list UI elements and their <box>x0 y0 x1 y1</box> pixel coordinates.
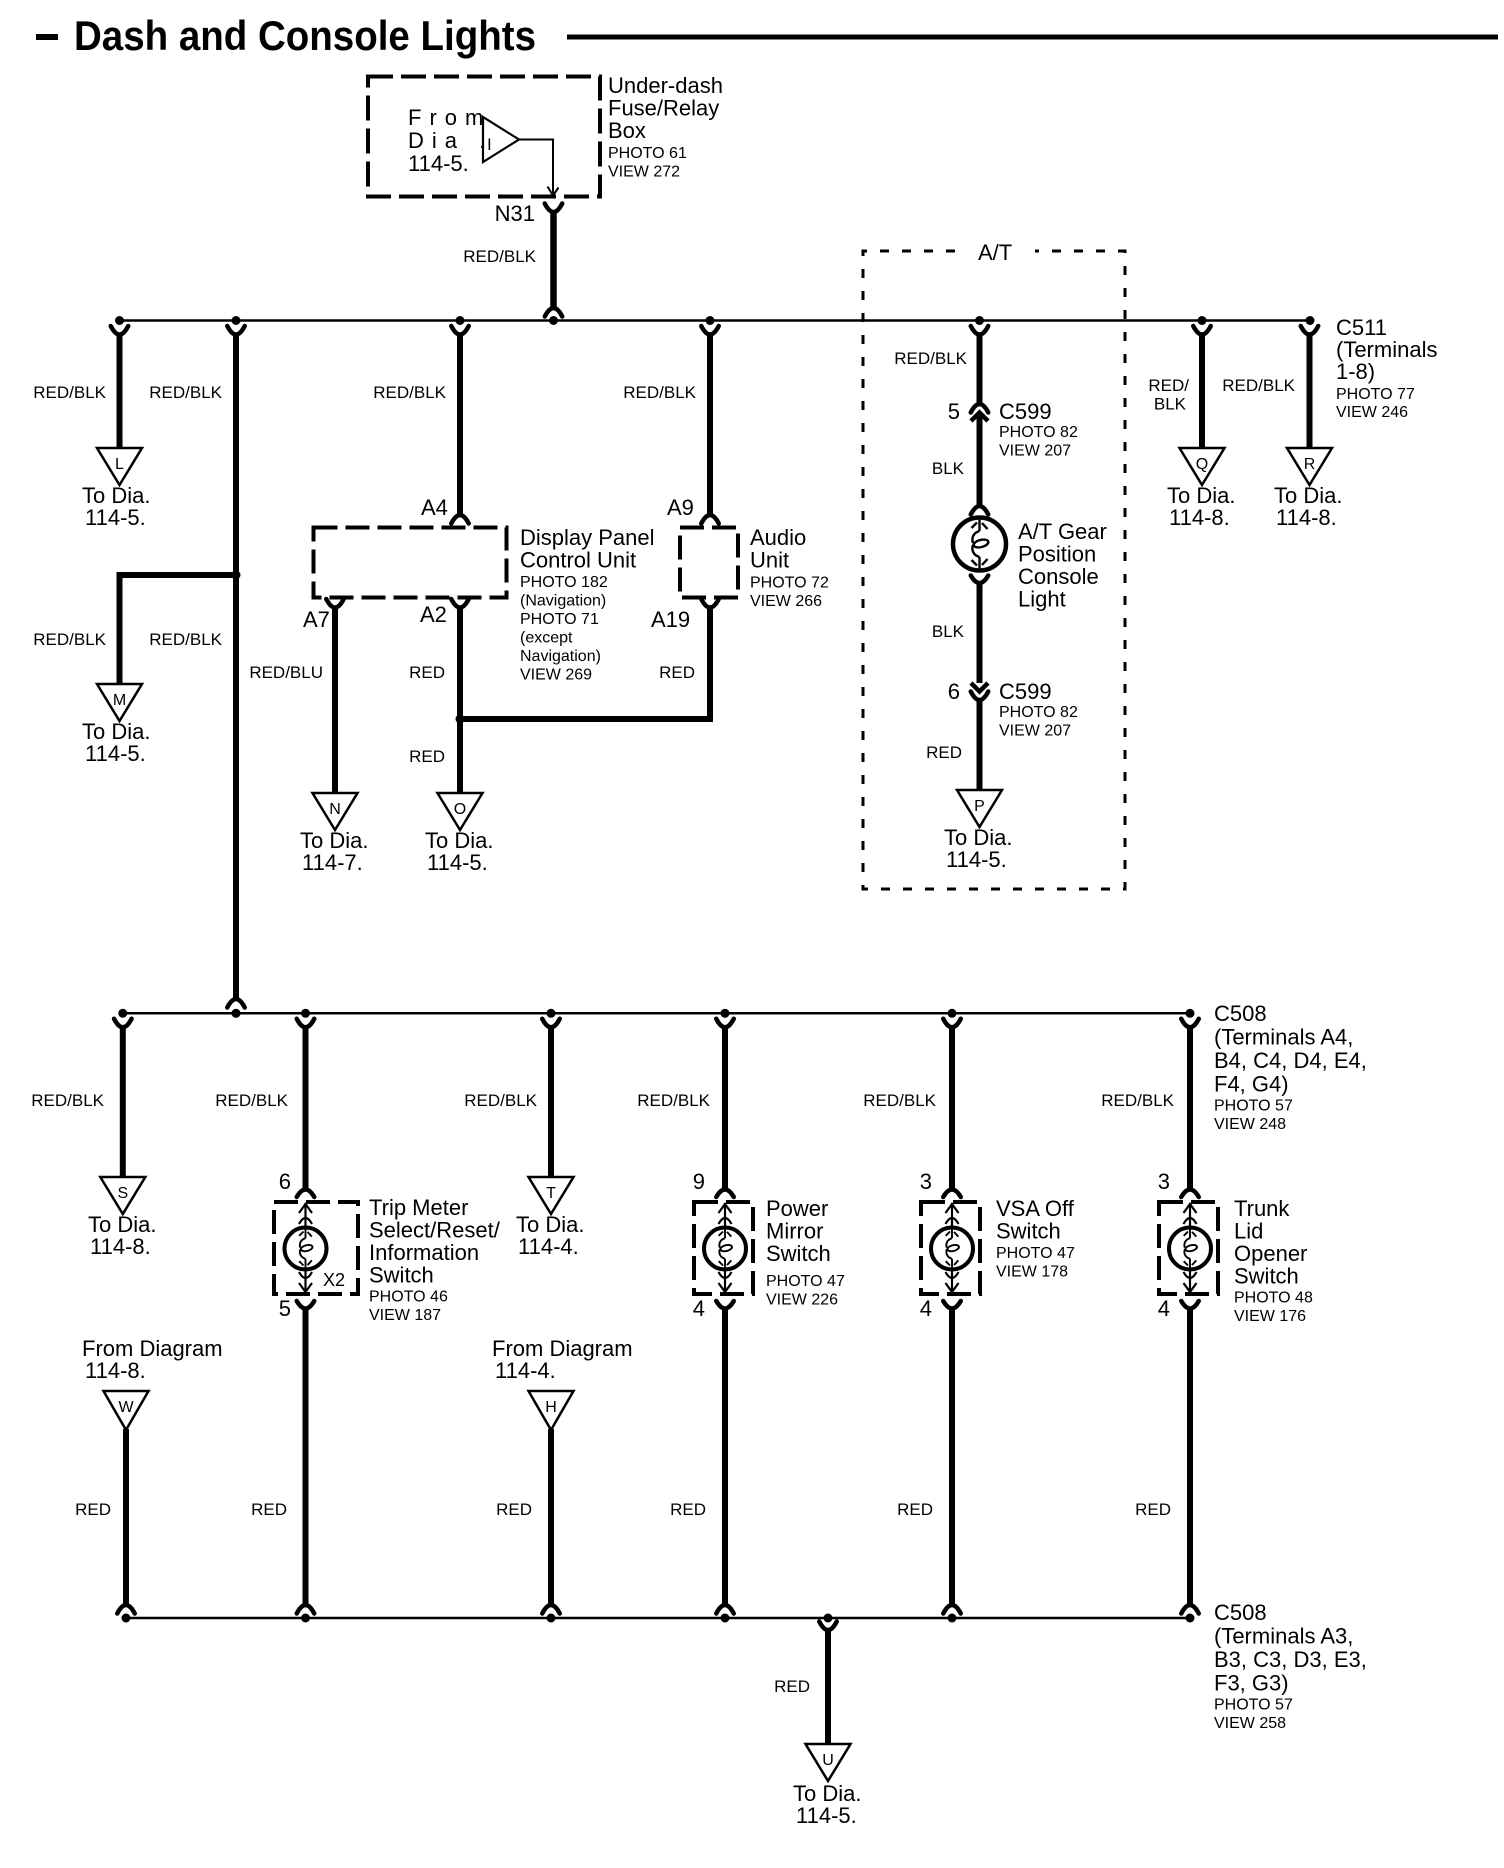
svg-text:PHOTO 72: PHOTO 72 <box>750 575 829 592</box>
svg-text:Switch: Switch <box>369 1263 434 1288</box>
junction dot bus3 x=551 <box>547 1614 556 1623</box>
junction dot bus3 x=1190 <box>1186 1614 1195 1623</box>
svg-text:VIEW 272: VIEW 272 <box>608 164 680 181</box>
svg-text:114-5.: 114-5. <box>796 1803 857 1828</box>
svg-text:B4, C4, D4, E4,: B4, C4, D4, E4, <box>1214 1048 1367 1073</box>
connector triangle N To Dia. 114-7. <box>313 793 358 830</box>
svg-text:RED/BLK: RED/BLK <box>464 1091 537 1110</box>
svg-text:RED/BLK: RED/BLK <box>31 1091 104 1110</box>
svg-text:A19: A19 <box>651 607 690 632</box>
svg-text:RED/BLK: RED/BLK <box>1222 376 1295 395</box>
svg-text:P: P <box>974 798 985 815</box>
branch wire to trunk lid opener switch (RED/BLK) <box>1181 1019 1199 1028</box>
svg-text:Audio: Audio <box>750 525 806 550</box>
connector triangle W (from diagram) <box>104 1391 149 1430</box>
connector triangle H (from diagram) <box>529 1391 574 1430</box>
wire RED from H to bus3 <box>548 1429 554 1604</box>
svg-text:RED/BLK: RED/BLK <box>149 383 222 402</box>
svg-text:C508: C508 <box>1214 1600 1267 1625</box>
svg-text:RED/BLK: RED/BLK <box>637 1091 710 1110</box>
svg-text:L: L <box>115 456 124 473</box>
svg-text:4: 4 <box>693 1296 705 1321</box>
branch wire to VSA off switch (RED/BLK) <box>943 1019 961 1028</box>
svg-text:VIEW 258: VIEW 258 <box>1214 1715 1286 1732</box>
connector triangle P To Dia. 114-5. <box>957 790 1002 827</box>
wire N31 from fuse box to bus (RED/BLK) <box>545 204 563 213</box>
title rule <box>567 35 1498 40</box>
wire RED from trip meter to bus3 <box>297 1301 315 1309</box>
svg-text:5: 5 <box>948 399 960 424</box>
title: Dash and Console Lights heading <box>36 34 58 40</box>
bus line 3 (bottom horizontal) <box>126 1617 1190 1620</box>
power mirror switch box <box>694 1202 753 1294</box>
wire RED from VSA off switch to bus3 <box>943 1301 961 1309</box>
svg-text:Switch: Switch <box>1234 1264 1299 1289</box>
svg-text:B3, C3, D3, E3,: B3, C3, D3, E3, <box>1214 1647 1367 1672</box>
branch wire to display panel A4 <box>451 326 469 335</box>
svg-text:114-5.: 114-5. <box>946 847 1007 872</box>
connector triangle T To Dia. 114-4. <box>529 1177 574 1214</box>
VSA off switch box <box>921 1202 980 1294</box>
svg-text:RED: RED <box>409 747 445 766</box>
svg-text:114-8.: 114-8. <box>1169 505 1230 530</box>
junction dot bus2 x=236 <box>232 1009 241 1018</box>
horizontal jumper wire to M branch <box>120 572 237 578</box>
svg-text:RED/BLK: RED/BLK <box>33 630 106 649</box>
junction dot bus3 x=952 <box>948 1614 957 1623</box>
junction dot A2/A19 tap <box>456 715 465 724</box>
long branch wire from bus1 to bus2 <box>227 326 245 335</box>
svg-text:VIEW 207: VIEW 207 <box>999 723 1071 740</box>
svg-text:RED/BLU: RED/BLU <box>249 663 323 682</box>
svg-text:Information: Information <box>369 1240 479 1265</box>
branch wire to audio unit A9 <box>701 326 719 335</box>
connector triangle R To Dia. 114-8. <box>1287 448 1332 485</box>
svg-text:BLK: BLK <box>932 459 965 478</box>
svg-text:6: 6 <box>948 679 960 704</box>
junction dot bus3 x=305.5 <box>301 1614 310 1623</box>
connector triangle S To Dia. 114-8. <box>100 1177 145 1214</box>
svg-text:3: 3 <box>920 1169 932 1194</box>
svg-text:114-4.: 114-4. <box>518 1234 579 1259</box>
svg-text:N: N <box>329 801 341 818</box>
A/T gear position console light bulb <box>971 506 989 515</box>
junction dot bus2 x=952 <box>948 1009 957 1018</box>
junction dot bus1 x=710 <box>706 316 715 325</box>
junction dot bus1 x=1310 <box>1306 316 1315 325</box>
svg-text:6: 6 <box>279 1169 291 1194</box>
svg-text:RED: RED <box>251 1500 287 1519</box>
svg-text:PHOTO 57: PHOTO 57 <box>1214 1098 1293 1115</box>
connector C599 pin5 (female/male pair) <box>971 404 989 413</box>
svg-text:Opener: Opener <box>1234 1241 1307 1266</box>
wire RED from C599 pin6 to P triangle <box>977 700 983 790</box>
svg-text:Dash and Console Lights: Dash and Console Lights <box>74 12 536 59</box>
svg-text:Box: Box <box>608 118 646 143</box>
svg-text:114-5.: 114-5. <box>408 151 469 176</box>
horizontal jumper wire from A2 wire to A19 wire <box>460 716 710 722</box>
junction dot bus1 x=979.5 <box>975 316 984 325</box>
svg-text:(Terminals A3,: (Terminals A3, <box>1214 1624 1353 1649</box>
wire BLK from bulb to C599 pin6 <box>977 581 983 683</box>
svg-text:Unit: Unit <box>750 548 789 573</box>
svg-text:A2: A2 <box>420 602 447 627</box>
connector triangle O To Dia. 114-5. <box>438 793 483 830</box>
svg-text:RED: RED <box>926 743 962 762</box>
svg-text:BLK: BLK <box>1154 395 1187 414</box>
wire from A19 down to jumper (RED) <box>701 599 719 608</box>
svg-text:RED: RED <box>1135 1500 1171 1519</box>
branch wire T from bus2 (RED/BLK) <box>542 1019 560 1028</box>
svg-text:Trip Meter: Trip Meter <box>369 1195 468 1220</box>
svg-text:4: 4 <box>1158 1296 1170 1321</box>
svg-text:(except: (except <box>520 630 573 647</box>
junction dot bus3 x=725 <box>721 1614 730 1623</box>
connector triangle U To Dia. 114-5. <box>806 1744 851 1781</box>
svg-text:Mirror: Mirror <box>766 1219 823 1244</box>
svg-text:Display Panel: Display Panel <box>520 525 655 550</box>
branch wire to trip meter switch (RED/BLK) <box>297 1019 315 1028</box>
svg-text:VIEW 246: VIEW 246 <box>1336 404 1408 421</box>
svg-text:114-8.: 114-8. <box>85 1358 146 1383</box>
svg-text:A/T Gear: A/T Gear <box>1018 519 1107 544</box>
svg-text:C599: C599 <box>999 679 1052 704</box>
svg-text:(Terminals A4,: (Terminals A4, <box>1214 1025 1353 1050</box>
svg-text:114-5.: 114-5. <box>85 505 146 530</box>
branch wire S from bus2 (RED/BLK) <box>114 1019 132 1028</box>
connector C599 pin6 (male/female pair) <box>971 683 988 692</box>
svg-text:M: M <box>113 692 126 709</box>
svg-text:I: I <box>487 135 492 154</box>
svg-text:RED: RED <box>774 1677 810 1696</box>
junction dot bus1 x=1202 <box>1198 316 1207 325</box>
junction dot bus1 x=553.5 <box>549 316 558 325</box>
wire from A2 down (RED) <box>451 599 469 608</box>
svg-text:RED: RED <box>75 1500 111 1519</box>
svg-text:S: S <box>117 1185 128 1202</box>
junction dot on long wire for M tap <box>232 571 241 580</box>
svg-text:RED: RED <box>670 1500 706 1519</box>
svg-text:3: 3 <box>1158 1169 1170 1194</box>
svg-text:U: U <box>822 1752 834 1769</box>
svg-text:PHOTO 82: PHOTO 82 <box>999 704 1078 721</box>
svg-text:114-8.: 114-8. <box>1276 505 1337 530</box>
under-dash fuse/relay box (dashed) <box>368 77 600 197</box>
svg-text:BLK: BLK <box>932 622 965 641</box>
svg-text:VIEW 269: VIEW 269 <box>520 667 592 684</box>
svg-text:A/T: A/T <box>978 240 1012 265</box>
svg-text:VIEW 266: VIEW 266 <box>750 593 822 610</box>
junction dot bus2 x=122.8 <box>118 1009 127 1018</box>
wire RED from W to bus3 <box>123 1429 129 1604</box>
display panel control unit box (dashed) <box>314 528 507 598</box>
trip meter select/reset/information switch box <box>274 1202 358 1294</box>
svg-text:Under-dash: Under-dash <box>608 73 723 98</box>
branch wire R from bus1 end <box>1301 326 1319 335</box>
svg-text:1-8): 1-8) <box>1336 359 1375 384</box>
svg-text:PHOTO 47: PHOTO 47 <box>996 1245 1075 1262</box>
svg-text:114-8.: 114-8. <box>90 1234 151 1259</box>
svg-text:Trunk: Trunk <box>1234 1196 1290 1221</box>
svg-text:Light: Light <box>1018 587 1066 612</box>
wire RED from trunk lid switch to bus3 <box>1181 1301 1199 1309</box>
svg-text:C599: C599 <box>999 399 1052 424</box>
svg-text:RED: RED <box>897 1500 933 1519</box>
svg-text:H: H <box>545 1399 557 1416</box>
junction dot bus1 x=119.5 <box>115 316 124 325</box>
svg-text:VSA Off: VSA Off <box>996 1196 1075 1221</box>
svg-text:RED/BLK: RED/BLK <box>894 349 967 368</box>
svg-text:PHOTO 82: PHOTO 82 <box>999 424 1078 441</box>
wire BLK from C599 to console light bulb <box>977 416 983 505</box>
svg-text:A4: A4 <box>421 495 448 520</box>
svg-text:4: 4 <box>920 1296 932 1321</box>
svg-text:O: O <box>454 801 466 818</box>
bus line 2 (middle horizontal) <box>123 1012 1190 1015</box>
svg-text:T: T <box>546 1185 556 1202</box>
bus line 1 (top horizontal) <box>120 319 1311 322</box>
svg-text:Console: Console <box>1018 564 1099 589</box>
svg-text:From: From <box>408 105 491 130</box>
buffer triangle symbol inside fuse box <box>483 117 519 162</box>
junction dot bus2 x=725 <box>721 1009 730 1018</box>
svg-text:F4, G4): F4, G4) <box>1214 1072 1289 1097</box>
audio unit box (dashed) <box>680 528 738 598</box>
svg-text:N31: N31 <box>495 201 535 226</box>
svg-text:RED/BLK: RED/BLK <box>33 383 106 402</box>
branch wire L drop from bus1 <box>111 326 129 335</box>
junction dot bus2 x=305.5 <box>301 1009 310 1018</box>
svg-text:RED/BLK: RED/BLK <box>1101 1091 1174 1110</box>
branch wire to power mirror switch (RED/BLK) <box>716 1019 734 1028</box>
svg-text:PHOTO 48: PHOTO 48 <box>1234 1290 1313 1307</box>
svg-text:VIEW 248: VIEW 248 <box>1214 1116 1286 1133</box>
junction dot bus1 x=460 <box>456 316 465 325</box>
svg-text:PHOTO 47: PHOTO 47 <box>766 1273 845 1290</box>
A/T dashed enclosure box <box>863 251 1125 889</box>
svg-text:R: R <box>1304 456 1316 473</box>
branch wire Q from bus1 <box>1193 326 1211 335</box>
svg-text:Navigation): Navigation) <box>520 648 601 665</box>
svg-text:Position: Position <box>1018 542 1096 567</box>
junction dot bus2 x=1190 <box>1186 1009 1195 1018</box>
svg-text:W: W <box>118 1399 134 1416</box>
svg-text:(Navigation): (Navigation) <box>520 593 606 610</box>
svg-text:Switch: Switch <box>766 1241 831 1266</box>
svg-text:114-4.: 114-4. <box>495 1358 556 1383</box>
svg-text:RED/BLK: RED/BLK <box>463 247 536 266</box>
svg-text:RED: RED <box>409 663 445 682</box>
svg-text:Select/Reset/: Select/Reset/ <box>369 1218 501 1243</box>
junction dot bus2 x=551 <box>547 1009 556 1018</box>
trunk lid opener switch box <box>1159 1202 1218 1294</box>
svg-text:9: 9 <box>693 1169 705 1194</box>
svg-text:RED/BLK: RED/BLK <box>149 630 222 649</box>
svg-text:X2: X2 <box>323 1270 345 1290</box>
wire from buffer to box edge with arrow <box>519 140 553 194</box>
junction dot bus1 x=236 <box>232 316 241 325</box>
svg-text:PHOTO 71: PHOTO 71 <box>520 611 599 628</box>
svg-text:Lid: Lid <box>1234 1219 1263 1244</box>
branch wire U drop from bus3 (RED) <box>819 1622 837 1631</box>
junction dot bus3 x=828 <box>824 1614 833 1623</box>
svg-text:RED/BLK: RED/BLK <box>215 1091 288 1110</box>
svg-text:PHOTO 182: PHOTO 182 <box>520 574 608 591</box>
svg-text:Switch: Switch <box>996 1219 1061 1244</box>
svg-text:Q: Q <box>1196 456 1208 473</box>
A/T branch wire from bus1 (RED/BLK) <box>971 326 989 335</box>
svg-text:Fuse/Relay: Fuse/Relay <box>608 96 719 121</box>
svg-text:VIEW 176: VIEW 176 <box>1234 1308 1306 1325</box>
svg-text:RED/BLK: RED/BLK <box>623 383 696 402</box>
svg-text:5: 5 <box>279 1296 291 1321</box>
svg-text:114-7.: 114-7. <box>302 850 363 875</box>
M branch vertical wire <box>117 572 123 684</box>
svg-text:VIEW 178: VIEW 178 <box>996 1264 1068 1281</box>
svg-text:RED/BLK: RED/BLK <box>863 1091 936 1110</box>
svg-text:A9: A9 <box>667 495 694 520</box>
svg-text:RED: RED <box>659 663 695 682</box>
svg-text:VIEW 187: VIEW 187 <box>369 1307 441 1324</box>
wire from A7 to N triangle (RED/BLU) <box>326 599 344 608</box>
svg-text:PHOTO 57: PHOTO 57 <box>1214 1697 1293 1714</box>
svg-text:RED/: RED/ <box>1148 376 1189 395</box>
connector triangle L To Dia. 114-5. <box>97 448 142 485</box>
svg-text:PHOTO 77: PHOTO 77 <box>1336 386 1415 403</box>
svg-text:PHOTO 61: PHOTO 61 <box>608 145 687 162</box>
svg-text:RED/BLK: RED/BLK <box>373 383 446 402</box>
connector triangle Q To Dia. 114-8. <box>1180 448 1225 485</box>
svg-text:Dia .: Dia . <box>408 128 493 153</box>
svg-text:RED: RED <box>496 1500 532 1519</box>
svg-text:A7: A7 <box>303 607 330 632</box>
svg-text:VIEW 226: VIEW 226 <box>766 1292 838 1309</box>
svg-text:PHOTO 46: PHOTO 46 <box>369 1289 448 1306</box>
svg-text:114-5.: 114-5. <box>427 850 488 875</box>
wire RED from power mirror switch to bus3 <box>716 1301 734 1309</box>
junction dot bus3 x=126 <box>122 1614 131 1623</box>
svg-text:114-5.: 114-5. <box>85 741 146 766</box>
svg-text:Power: Power <box>766 1196 828 1221</box>
svg-text:Control Unit: Control Unit <box>520 548 636 573</box>
svg-text:C508: C508 <box>1214 1001 1267 1026</box>
svg-text:F3, G3): F3, G3) <box>1214 1671 1289 1696</box>
svg-text:VIEW 207: VIEW 207 <box>999 443 1071 460</box>
connector triangle M To Dia. 114-5. <box>97 684 142 721</box>
